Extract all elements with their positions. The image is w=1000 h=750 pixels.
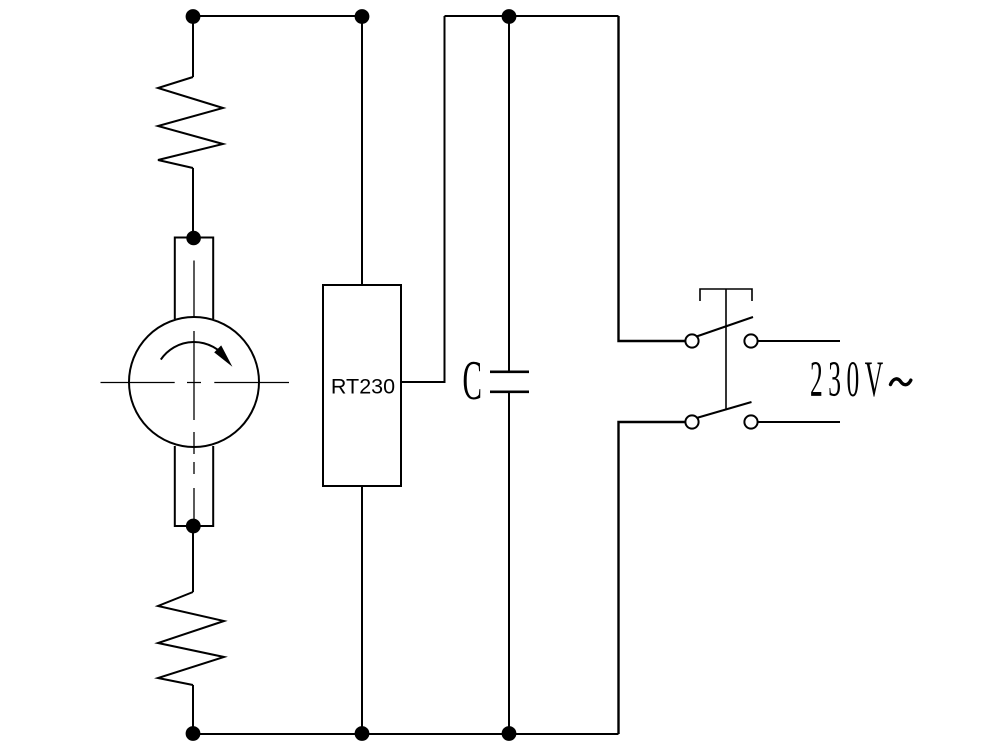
brush holder top [175, 238, 213, 320]
thermistor RT230 box [323, 285, 401, 486]
wire top bus to RT230 [361, 16, 363, 285]
wire switch upper right [758, 340, 840, 342]
switch S1 upper pole left contact [685, 334, 698, 347]
node junction brush bottom [186, 519, 201, 534]
switch mechanical link [725, 289, 727, 409]
motor M1 circle [129, 317, 259, 447]
wire top bus left segment [193, 15, 362, 17]
node junction bottom-capacitor [502, 726, 517, 741]
wire RT230 to bottom bus [361, 486, 363, 734]
svg-text:230V: 230V [810, 350, 889, 407]
rotation arrowhead [214, 345, 232, 366]
wire switch lower feed [619, 422, 686, 734]
wire from brush node to resistor R2 [192, 526, 194, 592]
wire capacitor top lead [508, 16, 510, 371]
centerline horizontal [101, 382, 290, 384]
node junction top-middle [355, 9, 370, 24]
rotation arrow arc [161, 342, 227, 360]
switch S1 lower lever [697, 402, 752, 418]
node junction top-left [186, 9, 201, 24]
wire from top bus to resistor R1 [192, 16, 194, 77]
centerline vertical [193, 261, 195, 521]
node junction brush top [186, 231, 201, 246]
resistor R1 [158, 77, 223, 168]
switch S1 lower pole right contact [744, 415, 757, 428]
wire switch upper feed [619, 16, 686, 341]
wire from R1 to brush node [192, 168, 194, 238]
brush holder bottom [175, 446, 213, 526]
node junction top-capacitor [502, 9, 517, 24]
resistor R2 [158, 592, 224, 685]
wire bottom bus [193, 733, 619, 735]
switch S1 upper pole right contact [744, 334, 757, 347]
svg-text:C: C [463, 349, 482, 412]
wire capacitor bottom lead [508, 392, 510, 734]
svg-text:RT230: RT230 [331, 375, 395, 399]
wire RT230 right tap to top bus [401, 16, 445, 382]
wire from R2 to bottom bus [192, 685, 194, 734]
switch actuator bracket [700, 289, 752, 301]
capacitor C bottom plate [490, 390, 529, 393]
node junction bottom-left [186, 726, 201, 741]
switch S1 lower pole left contact [685, 415, 698, 428]
wire switch lower right [758, 421, 840, 423]
capacitor C top plate [490, 370, 529, 373]
wire top bus right segment [445, 15, 619, 17]
label tilde [891, 379, 911, 385]
node junction bottom-middle [355, 726, 370, 741]
switch S1 upper lever [697, 317, 754, 337]
